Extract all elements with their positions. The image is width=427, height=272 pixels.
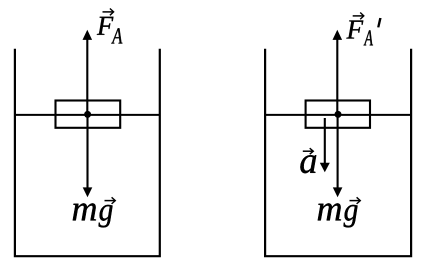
right buoyancy arrow F_A' (up) [333, 30, 343, 115]
label mg (left): vector arrow over g [105, 197, 116, 204]
left block center dot [84, 111, 91, 118]
left floating block [56, 101, 121, 128]
acceleration arrow a (down, from block) [320, 118, 330, 172]
label F_A' (right): subscript A [364, 30, 373, 45]
label F_A' (right): letter F [346, 21, 363, 39]
label a (right): letter a [300, 155, 316, 173]
left weight arrow mg (down) [83, 114, 93, 197]
label mg (right): letter m [318, 203, 341, 220]
right floating block [306, 101, 370, 128]
label F_A' (right): prime mark [377, 18, 382, 28]
label F_A (left): letter F [97, 17, 114, 35]
label mg (right): vector arrow over g [350, 197, 361, 204]
left buoyancy arrow F_A (up) [83, 30, 93, 115]
label a (right): vector arrow over a [303, 148, 314, 154]
label F_A' (right): vector arrow over F [353, 13, 364, 20]
label mg (left): letter m [73, 203, 96, 220]
label mg (left): letter g [99, 205, 113, 228]
label F_A (left): subscript A [111, 28, 122, 43]
label mg (right): letter g [344, 205, 358, 228]
label F_A (left): vector arrow over F [103, 9, 114, 16]
right beaker [265, 49, 411, 257]
right weight arrow mg (down) [333, 114, 343, 197]
left beaker [15, 49, 160, 256]
left water line [15, 114, 160, 116]
right block center dot [335, 111, 342, 118]
right water line [265, 114, 411, 116]
